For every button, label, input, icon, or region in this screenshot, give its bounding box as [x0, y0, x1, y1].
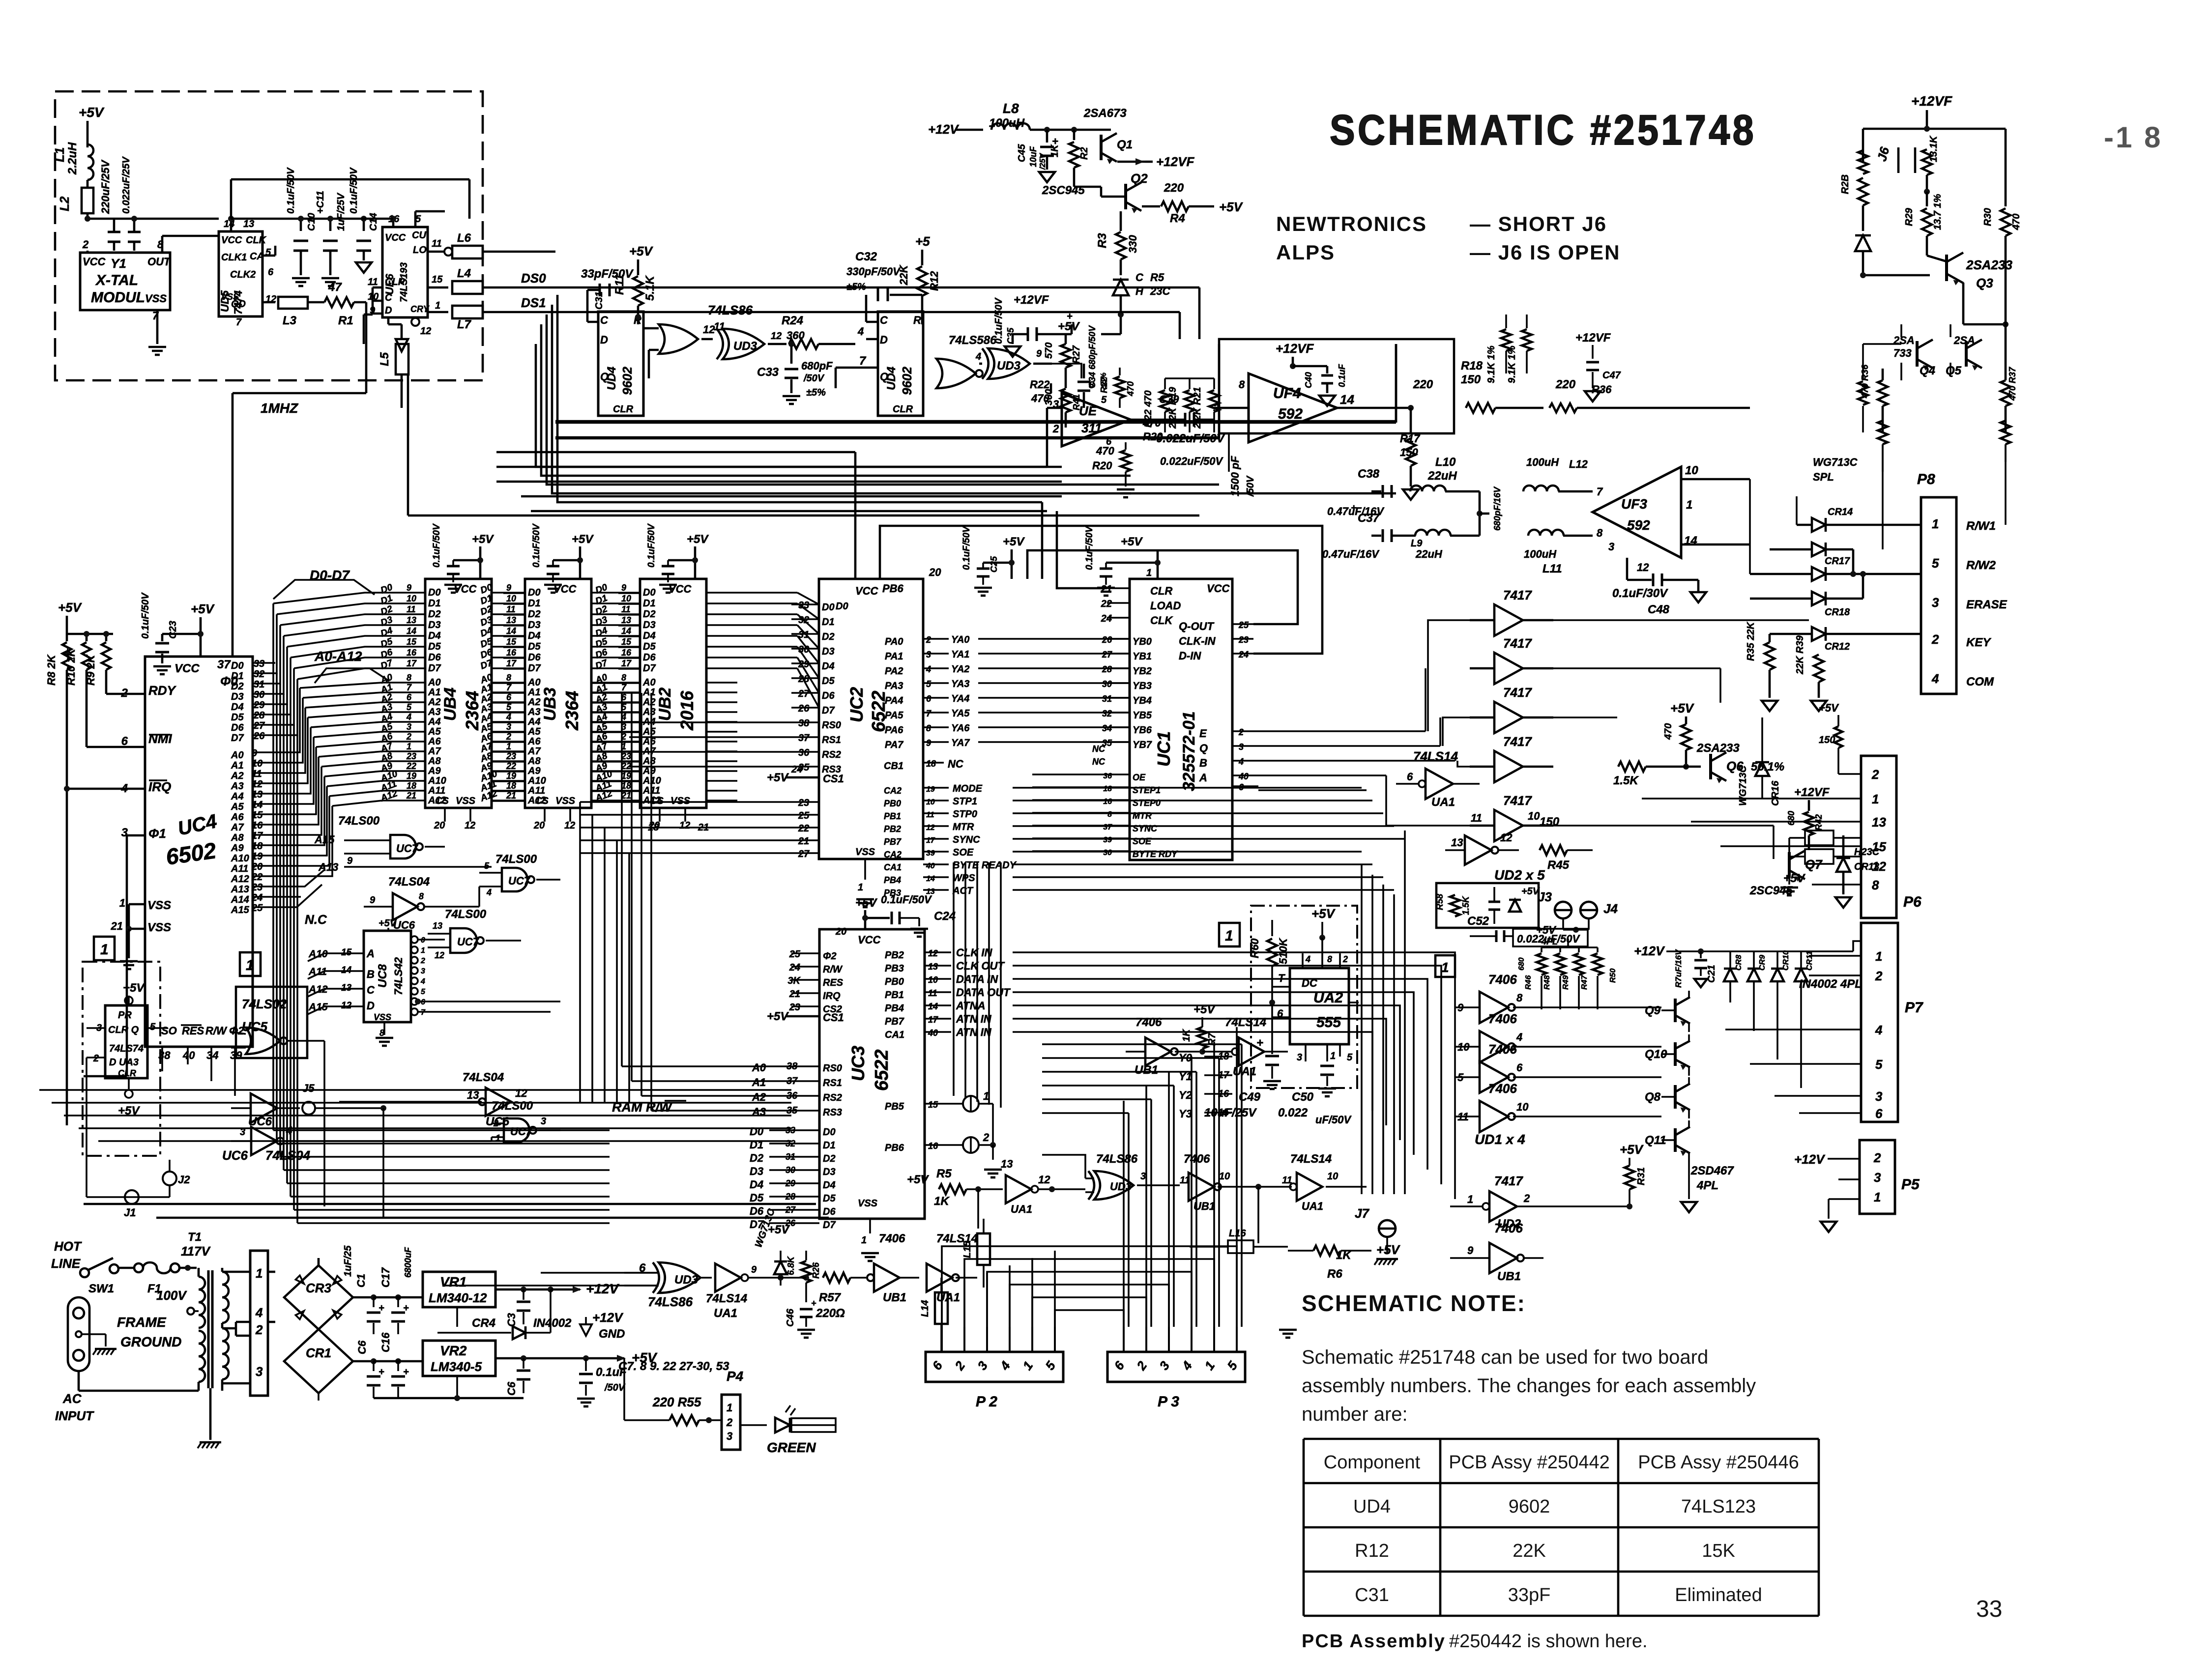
connector P2	[926, 1352, 1063, 1382]
inductor L16 box	[1228, 1240, 1253, 1253]
svg-text:Φ1: Φ1	[148, 826, 166, 841]
wire Q7 collector to P6	[1805, 870, 1819, 871]
wire bridge tops	[268, 1263, 319, 1272]
svg-text:13: 13	[1451, 836, 1463, 849]
wire UC3 CA1 long wire right	[1013, 1036, 1445, 1037]
svg-text:CLR: CLR	[385, 277, 406, 287]
svg-text:T1: T1	[188, 1231, 202, 1244]
svg-text:1: 1	[435, 300, 440, 311]
svg-text:2016: 2016	[677, 690, 697, 731]
svg-text:13: 13	[433, 921, 442, 931]
diode CR7	[774, 1261, 787, 1274]
svg-text:L4: L4	[457, 267, 471, 280]
svg-text:D1: D1	[528, 598, 541, 609]
svg-text:R12: R12	[1355, 1541, 1389, 1561]
svg-text:R49: R49	[1562, 975, 1570, 990]
svg-text:15: 15	[928, 1100, 938, 1110]
svg-text:PB0: PB0	[885, 976, 904, 987]
resistor R35 22K gnd	[1765, 642, 1775, 670]
svg-text:24: 24	[1238, 650, 1249, 659]
svg-text:12: 12	[435, 950, 444, 960]
svg-text:MODE: MODE	[953, 783, 983, 794]
svg-text:2SD467: 2SD467	[1690, 1164, 1734, 1177]
svg-text:470: 470	[1031, 392, 1049, 404]
svg-text:74LS02: 74LS02	[242, 997, 287, 1011]
wire phi2 column down from UC4	[169, 1061, 170, 1160]
svg-text:470: 470	[1096, 445, 1114, 457]
resistor R28 networks	[1858, 178, 1868, 205]
svg-text:UB1: UB1	[883, 1291, 906, 1304]
svg-text:18: 18	[407, 781, 416, 791]
svg-text:VSS: VSS	[221, 292, 239, 302]
svg-text:33: 33	[1976, 1596, 2002, 1622]
svg-text:19: 19	[407, 771, 416, 781]
svg-text:0.1uF/50V: 0.1uF/50V	[646, 523, 657, 568]
svg-text:0.022uF/50V: 0.022uF/50V	[1160, 455, 1224, 467]
svg-text:UD2 x 5: UD2 x 5	[1494, 867, 1545, 883]
svg-text:D5: D5	[231, 712, 244, 723]
svg-text:11: 11	[368, 277, 378, 287]
svg-text:4: 4	[926, 664, 931, 674]
svg-text:1: 1	[858, 882, 863, 893]
svg-text:14: 14	[1340, 392, 1354, 407]
jumper J6 and resistor RK1 13.1K	[1897, 129, 1898, 139]
connector P6	[1861, 756, 1896, 918]
svg-text:R50: R50	[1609, 969, 1617, 983]
svg-text:25: 25	[1238, 620, 1249, 630]
wire UF3 outputs to P8 diodes	[1749, 479, 1750, 599]
wires Q4 Q5 emitters down	[1900, 363, 1902, 380]
svg-text:D: D	[880, 334, 888, 346]
svg-text:IN4002 4PL: IN4002 4PL	[1799, 977, 1862, 991]
svg-text:8: 8	[419, 891, 424, 901]
svg-text:74LS74: 74LS74	[109, 1043, 144, 1054]
svg-text:+5V: +5V	[1121, 535, 1143, 548]
wire IRQ row	[59, 796, 67, 797]
svg-text:3: 3	[506, 722, 511, 732]
svg-text:CR16: CR16	[1770, 780, 1781, 806]
svg-text:20: 20	[929, 566, 941, 578]
svg-text:D2: D2	[231, 681, 244, 692]
svg-text:+5: +5	[915, 234, 930, 249]
svg-text:UB4: UB4	[441, 687, 460, 721]
svg-text:3: 3	[1608, 541, 1614, 553]
svg-text:0.1uF/50V: 0.1uF/50V	[993, 297, 1004, 344]
svg-text:C52: C52	[1467, 915, 1489, 928]
svg-text:D1: D1	[823, 1140, 836, 1151]
svg-text:7406: 7406	[1184, 1152, 1210, 1166]
svg-text:RES: RES	[823, 977, 844, 988]
svg-text:74LS86: 74LS86	[1096, 1152, 1138, 1166]
svg-text:A10: A10	[231, 853, 249, 864]
transistor Q7 2SC945	[1788, 852, 1791, 878]
wires right of UC3 stepping	[1013, 952, 1465, 953]
0.1uF cap at +5V rail	[583, 1355, 589, 1361]
svg-text:680pF/16V: 680pF/16V	[1492, 486, 1502, 531]
svg-text:22: 22	[1101, 599, 1112, 609]
svg-text:RS1: RS1	[823, 1078, 842, 1088]
svg-text:1.5K: 1.5K	[1461, 895, 1471, 915]
diode CR12	[1812, 627, 1826, 641]
svg-text:14: 14	[252, 800, 262, 810]
svg-text:2: 2	[1931, 632, 1939, 647]
decoder UC8 74LS42	[364, 931, 411, 1022]
UE6 pins 15/10/9 loopback	[373, 286, 382, 289]
svg-text:24: 24	[1101, 613, 1112, 624]
svg-text:11: 11	[506, 604, 516, 614]
svg-text:470: 470	[1126, 381, 1135, 397]
svg-text:7417: 7417	[1503, 734, 1532, 749]
wire line to transformer	[78, 1273, 79, 1278]
wire UF3 to P8 R/W stair	[1750, 479, 1779, 480]
svg-text:592: 592	[1627, 517, 1650, 533]
svg-text:3: 3	[421, 967, 425, 975]
svg-text:23: 23	[798, 798, 809, 808]
resistor R58 1.5K	[1450, 895, 1460, 916]
svg-text:34: 34	[1102, 723, 1112, 733]
svg-text:PA0: PA0	[885, 636, 903, 647]
box around UF4 section	[1219, 339, 1454, 433]
svg-text:8: 8	[1597, 527, 1603, 539]
+5V output arrow	[617, 1355, 626, 1362]
svg-text:+12VF: +12VF	[1014, 293, 1049, 307]
svg-text:1.5K: 1.5K	[1613, 774, 1639, 787]
svg-text:Component: Component	[1324, 1452, 1421, 1473]
svg-text:5: 5	[484, 861, 490, 871]
svg-text:CR11: CR11	[1805, 951, 1814, 971]
svg-text:Q: Q	[880, 371, 888, 383]
capacitor C4 C16 pair	[371, 1358, 377, 1364]
svg-text:570: 570	[1044, 343, 1054, 359]
svg-text:+5V: +5V	[1783, 872, 1805, 885]
svg-text:4: 4	[486, 887, 492, 897]
svg-text:12: 12	[252, 779, 262, 790]
svg-text:A2: A2	[231, 771, 244, 781]
svg-text:VSS: VSS	[145, 292, 167, 305]
resistor R20 470 under UE311	[1125, 442, 1127, 450]
svg-text:2: 2	[1871, 767, 1879, 782]
resistor R28 stack upper right	[1858, 150, 1868, 174]
svg-text:4PL: 4PL	[1541, 937, 1558, 946]
LED GREEN	[775, 1418, 790, 1432]
capacitor C2 47uF	[658, 1420, 659, 1430]
svg-text:9: 9	[751, 1264, 757, 1275]
svg-text:D4: D4	[528, 630, 541, 641]
amplifier UF4 592	[1249, 373, 1337, 442]
svg-text:19: 19	[621, 771, 631, 781]
wire UD3 bottom inputs from left	[624, 1238, 625, 1273]
dash-dot box around UA3	[83, 962, 160, 1156]
svg-text:1: 1	[119, 897, 125, 909]
wire trunk verticals above P3	[1123, 1101, 1125, 1327]
svg-text:34: 34	[206, 1049, 218, 1061]
svg-text:12: 12	[1038, 1173, 1050, 1186]
wire UE6 vcc	[392, 219, 395, 227]
resistor R16 and C47	[1410, 408, 1412, 432]
svg-text:0.1uF/50V: 0.1uF/50V	[881, 893, 932, 906]
svg-text:CLR: CLR	[893, 404, 913, 415]
svg-text:3: 3	[1874, 1170, 1881, 1185]
svg-text:C16: C16	[379, 1332, 392, 1352]
svg-text:A11: A11	[642, 785, 660, 796]
resistors R32 R33 top right	[1878, 421, 1888, 444]
svg-text:Y1: Y1	[111, 256, 126, 271]
svg-text:VSS: VSS	[147, 921, 171, 934]
svg-text:13: 13	[928, 962, 938, 972]
pin 11 L6 resistor	[428, 251, 445, 253]
svg-text:16: 16	[506, 648, 517, 658]
wires into P6 left	[1642, 798, 1861, 800]
svg-text:C: C	[600, 314, 609, 326]
svg-text:17: 17	[407, 658, 417, 668]
svg-text:26: 26	[253, 731, 265, 742]
svg-text:D: D	[385, 305, 392, 316]
svg-text:A12: A12	[231, 874, 249, 885]
resistors R22 470 cluster left of UE311	[1119, 368, 1121, 375]
svg-text:YA4: YA4	[951, 693, 969, 704]
svg-text:STP1: STP1	[953, 796, 977, 807]
svg-text:D-IN: D-IN	[1179, 650, 1201, 662]
svg-text:325572-01: 325572-01	[1180, 711, 1198, 791]
C44 680pF cap middle	[1479, 491, 1481, 536]
svg-text:R2B: R2B	[1840, 174, 1851, 194]
inductor L1 2.2uH	[87, 144, 93, 180]
wire trunk verticals to P2/P3 region	[1128, 1113, 1130, 1327]
controller UC1 325572-01	[1130, 579, 1232, 860]
svg-text:31: 31	[1102, 694, 1112, 704]
svg-text:4: 4	[420, 977, 425, 986]
wire links UB4-UB3 all address rows	[492, 682, 525, 684]
svg-text:+5V: +5V	[767, 1010, 789, 1023]
UC4 VSS wires	[129, 903, 145, 906]
svg-text:YA2: YA2	[951, 664, 969, 675]
svg-text:+5V: +5V	[1536, 924, 1557, 936]
jumper blocks P6 pins 13/15	[1805, 830, 1834, 845]
svg-text:L8: L8	[1003, 101, 1019, 116]
svg-text:2.2uH: 2.2uH	[66, 142, 79, 175]
svg-text:C31: C31	[594, 291, 605, 310]
svg-text:+5V: +5V	[58, 600, 83, 615]
svg-text:D5: D5	[528, 641, 541, 652]
svg-text:R36: R36	[1592, 383, 1612, 396]
svg-text:NC: NC	[1092, 757, 1106, 767]
svg-text:Φ2: Φ2	[823, 951, 837, 962]
svg-text:CS1: CS1	[823, 1011, 844, 1024]
svg-text:74LS04: 74LS04	[265, 1148, 311, 1163]
long horizontal wires lower left	[84, 1203, 816, 1205]
svg-text:6: 6	[506, 692, 512, 702]
wire long UC1-E/Q/B/A rows to 7417 inputs	[1013, 790, 1367, 855]
svg-text:L16: L16	[1229, 1228, 1246, 1239]
svg-text:6: 6	[926, 694, 931, 704]
diode CR10	[1771, 969, 1784, 981]
svg-text:17: 17	[928, 1015, 938, 1025]
svg-text:2: 2	[420, 957, 425, 965]
svg-text:UC6: UC6	[222, 1148, 248, 1163]
svg-text:21: 21	[798, 836, 809, 847]
svg-text:25: 25	[798, 810, 810, 821]
svg-text:0.1uF/30V: 0.1uF/30V	[1612, 587, 1668, 600]
svg-text:4: 4	[975, 351, 981, 362]
svg-text:PCB Assembly: PCB Assembly	[1302, 1631, 1446, 1652]
svg-text:2SA233: 2SA233	[1696, 742, 1740, 755]
svg-text:9: 9	[1467, 1244, 1474, 1257]
svg-text:YA3: YA3	[951, 679, 969, 689]
svg-text:SW1: SW1	[88, 1282, 114, 1295]
svg-text:NEWTRONICS: NEWTRONICS	[1276, 212, 1427, 235]
svg-text:7406: 7406	[1488, 1042, 1517, 1057]
wire UC1 Y0-Y3 wires to right and down	[1232, 1057, 1278, 1219]
svg-text:Q4: Q4	[1920, 364, 1935, 377]
svg-text:220 R55: 220 R55	[652, 1395, 701, 1409]
svg-text:D1: D1	[643, 598, 656, 609]
svg-text:A15: A15	[231, 905, 250, 916]
svg-text:A0: A0	[231, 750, 244, 761]
svg-text:D7: D7	[822, 705, 835, 716]
svg-text:12: 12	[771, 331, 782, 342]
svg-text:UF4: UF4	[1273, 385, 1301, 401]
svg-text:STEP0: STEP0	[1133, 798, 1161, 808]
capacitor C14 0.1uF/50V	[363, 219, 365, 231]
svg-text:100uH: 100uH	[1526, 456, 1559, 468]
wire verticals left of UC2 from top bus	[791, 511, 792, 604]
wire verticals from bus top into UC2	[854, 452, 857, 579]
svg-text:3: 3	[1875, 1089, 1883, 1104]
svg-text:D5: D5	[823, 1193, 836, 1204]
svg-text:+5V: +5V	[118, 1104, 140, 1117]
svg-text:13: 13	[506, 615, 516, 625]
svg-text:+12V: +12V	[1794, 1152, 1826, 1167]
svg-text:10: 10	[407, 594, 416, 603]
svg-text:36: 36	[1103, 772, 1112, 780]
svg-text:+5V: +5V	[1620, 1142, 1644, 1157]
svg-text:PA3: PA3	[885, 681, 903, 691]
svg-text:10: 10	[1219, 1171, 1230, 1182]
amplifier UF3 592	[1593, 467, 1681, 558]
svg-text:+5V: +5V	[572, 533, 594, 546]
svg-text:A9: A9	[428, 766, 441, 776]
wire +5V rail top of box	[87, 219, 88, 224]
svg-text:A3: A3	[428, 707, 441, 717]
wire verticals under UC4 SO/RES pins	[162, 1071, 163, 1204]
svg-text:R5: R5	[1150, 271, 1164, 284]
svg-text:8: 8	[506, 673, 511, 683]
svg-text:30: 30	[1102, 679, 1112, 689]
svg-text:+C11: +C11	[315, 191, 326, 214]
svg-text:32: 32	[254, 669, 264, 680]
svg-text:VSS: VSS	[855, 847, 875, 858]
svg-text:WPS: WPS	[953, 873, 975, 884]
svg-text:R47: R47	[1580, 975, 1589, 990]
svg-text:22K R39: 22K R39	[1795, 635, 1805, 675]
svg-text:39: 39	[926, 849, 935, 858]
resistor R26 6.8K	[805, 1251, 807, 1260]
connector P5	[1860, 1140, 1895, 1214]
svg-text:R18: R18	[1461, 359, 1483, 372]
svg-text:16: 16	[407, 648, 417, 658]
jumper J1	[125, 1190, 139, 1204]
svg-text:25: 25	[789, 949, 801, 960]
wire UC1 B row to 7417 #4 input	[1457, 761, 1470, 767]
ram UB2 2016	[640, 579, 706, 808]
svg-text:680: 680	[1786, 811, 1796, 826]
svg-text:SPL: SPL	[1813, 471, 1834, 483]
svg-text:37: 37	[217, 658, 231, 671]
svg-text:VCC: VCC	[175, 662, 200, 675]
svg-text:C7. 8 9. 22 27-30, 53: C7. 8 9. 22 27-30, 53	[618, 1360, 729, 1373]
monostable UD4 9602 (left)	[598, 312, 643, 416]
svg-text:D7: D7	[643, 663, 656, 674]
AC plug symbol	[68, 1297, 89, 1371]
svg-text:R: R	[913, 314, 921, 326]
svg-text:0.1uF/50V: 0.1uF/50V	[1084, 526, 1095, 570]
svg-text:C23: C23	[168, 621, 178, 639]
transistor Q3 2SA233	[1945, 255, 1948, 281]
svg-text:10: 10	[621, 594, 631, 603]
svg-text:J4: J4	[1603, 901, 1618, 916]
svg-text:D3: D3	[823, 1167, 836, 1177]
wire UF3 outputs right	[1681, 478, 1750, 481]
svg-text:74LS04: 74LS04	[463, 1071, 504, 1084]
wire Q2 base	[1110, 196, 1126, 197]
svg-text:C24: C24	[934, 910, 956, 923]
svg-text:12: 12	[1872, 859, 1886, 874]
svg-text:24: 24	[791, 764, 802, 775]
svg-text:PA6: PA6	[885, 725, 903, 736]
svg-text:E: E	[1199, 727, 1207, 740]
svg-text:C37: C37	[1358, 512, 1380, 525]
svg-text:20: 20	[533, 820, 545, 831]
svg-text:13: 13	[621, 615, 631, 625]
capacitor C50 0.022uF/50V	[1320, 1065, 1334, 1067]
svg-text:D0: D0	[836, 601, 848, 612]
inductor L15 vertical	[977, 1233, 990, 1265]
svg-text:+5V: +5V	[378, 918, 397, 929]
svg-text:D0: D0	[428, 587, 441, 598]
svg-text:4: 4	[857, 325, 864, 338]
svg-text:C3: C3	[505, 1313, 518, 1327]
svg-text:A0: A0	[428, 677, 441, 688]
svg-text:11: 11	[926, 811, 934, 819]
svg-text:CRY: CRY	[410, 304, 430, 314]
svg-text:A3: A3	[642, 707, 656, 717]
svg-text:D2: D2	[823, 1153, 836, 1164]
svg-text:10: 10	[1685, 464, 1698, 477]
fuse F1	[134, 1263, 143, 1272]
svg-text:D6: D6	[643, 652, 656, 663]
wire verticals mid-left glue to bottom bus	[309, 988, 310, 1206]
wires Q to P7 rows	[1689, 990, 1861, 991]
svg-text:KEY: KEY	[1966, 636, 1991, 649]
svg-text:15: 15	[1872, 839, 1886, 854]
rom UB3 2364	[525, 579, 591, 808]
svg-text:J7: J7	[1355, 1206, 1369, 1221]
wire long horizontal y2478 extend	[829, 1217, 1081, 1218]
wire UD5 QD via L3 R1	[262, 301, 275, 304]
jumper J4	[1580, 902, 1597, 918]
svg-text:2.2K R21: 2.2K R21	[1192, 387, 1203, 429]
svg-text:4: 4	[1931, 671, 1939, 686]
wire UE311 input lines from bus	[1046, 408, 1048, 467]
svg-text:CA2: CA2	[884, 786, 902, 796]
svg-text:13: 13	[1872, 815, 1886, 830]
svg-text:UB1: UB1	[1135, 1063, 1158, 1077]
svg-text:12: 12	[420, 326, 431, 337]
svg-text:/50V: /50V	[803, 373, 825, 384]
jumper J5	[302, 1102, 315, 1115]
svg-text:8: 8	[1516, 992, 1523, 1004]
svg-text:20: 20	[835, 926, 846, 937]
